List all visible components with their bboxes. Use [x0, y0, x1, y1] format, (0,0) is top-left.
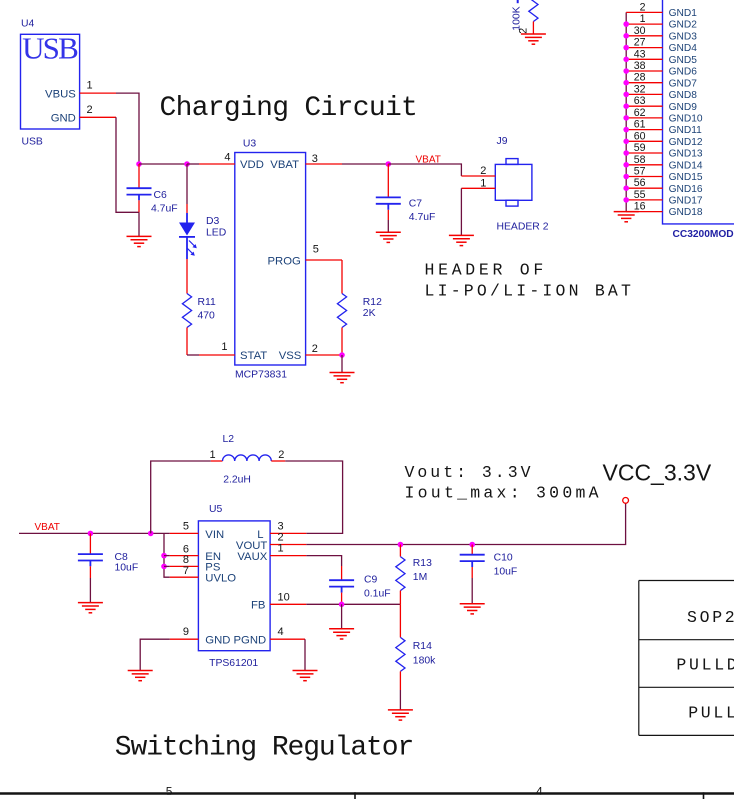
- svg-text:10uF: 10uF: [494, 567, 518, 578]
- ground below U5 GND: [128, 671, 153, 681]
- CC3200MOD pin GND11 stub: [626, 129, 662, 131]
- svg-text:32: 32: [634, 83, 646, 95]
- node EN junction dot: [161, 553, 167, 559]
- svg-text:2: 2: [640, 1, 646, 13]
- CC3200MOD module body edge: [663, 0, 734, 224]
- CC3200MOD pin GND7 stub: [626, 82, 662, 84]
- capacitor C7: [376, 197, 401, 203]
- ground below C10: [460, 604, 485, 614]
- svg-text:56: 56: [634, 177, 646, 189]
- GND bus junction dot row 6: [623, 68, 629, 74]
- svg-text:FB: FB: [251, 600, 265, 612]
- svg-text:9: 9: [183, 626, 189, 638]
- GND bus junction dot row 7: [623, 80, 629, 86]
- svg-text:27: 27: [634, 37, 646, 49]
- capacitor C7 top wire: [387, 164, 389, 197]
- J9 pin 2 stub: [461, 175, 495, 177]
- svg-text:60: 60: [634, 130, 646, 142]
- capacitor C10 top wire: [471, 545, 473, 555]
- GND bus junction dot row 14: [623, 162, 629, 168]
- U5 pin 5 stub: [170, 532, 199, 534]
- svg-text:GND5: GND5: [669, 55, 698, 66]
- wire PGND to ground: [304, 639, 306, 670]
- capacitor C6 top wire: [138, 164, 140, 188]
- CC3200MOD pin GND12 stub: [626, 140, 662, 142]
- svg-text:VIN: VIN: [205, 529, 224, 541]
- node C8 junction dot: [88, 531, 94, 537]
- svg-text:1: 1: [221, 341, 227, 353]
- wire C8 bottom red: [89, 566, 91, 578]
- svg-text:GND18: GND18: [669, 207, 703, 218]
- wire R13/R14 node down: [399, 604, 401, 637]
- table grid lines: [639, 581, 734, 736]
- GND bus junction dot row 13: [623, 150, 629, 156]
- svg-text:4: 4: [224, 152, 230, 164]
- svg-text:HEADER OF: HEADER OF: [425, 260, 547, 279]
- svg-text:VBAT: VBAT: [270, 159, 299, 171]
- wire C10 to ground: [471, 578, 473, 604]
- svg-text:VBUS: VBUS: [45, 88, 76, 100]
- svg-text:5: 5: [183, 520, 189, 532]
- CC3200MOD pin GND6 stub: [626, 70, 662, 72]
- svg-text:PROG: PROG: [268, 255, 301, 267]
- wire PS dot to stub: [164, 565, 170, 567]
- border line: [0, 792, 734, 794]
- svg-text:USB: USB: [22, 136, 43, 147]
- wire R14 to ground: [399, 690, 401, 710]
- U5 pin 6 stub: [170, 555, 199, 557]
- resistor R11: [182, 294, 191, 328]
- svg-text:Iout_max: 300mA: Iout_max: 300mA: [405, 484, 602, 503]
- GND bus junction dot row 10: [623, 115, 629, 121]
- svg-text:GND13: GND13: [669, 149, 703, 160]
- ground below C7: [376, 232, 401, 242]
- wire J9 pin1 to ground: [460, 188, 462, 235]
- svg-text:57: 57: [634, 166, 646, 178]
- partial clipped label mark: [517, 0, 519, 3]
- wire node B to U3 VDD pin: [187, 163, 199, 165]
- svg-text:2: 2: [518, 28, 530, 34]
- wire C6 bottom to ground: [138, 212, 140, 236]
- capacitor C8 bottom pin: [89, 561, 91, 567]
- svg-text:100K: 100K: [512, 6, 523, 30]
- GND bus junction dot row 4: [623, 45, 629, 51]
- svg-text:2: 2: [312, 343, 318, 355]
- CC3200MOD pin GND3 stub: [626, 35, 662, 37]
- GND bus junction dot row 8: [623, 92, 629, 98]
- svg-text:7: 7: [183, 565, 189, 577]
- ground below J9: [449, 235, 474, 245]
- svg-text:PULLUP: PULLUP: [688, 704, 734, 723]
- CC3200MOD pin GND13 stub: [626, 152, 662, 154]
- svg-text:0.1uF: 0.1uF: [364, 589, 391, 600]
- capacitor C10 bottom pin: [471, 561, 473, 567]
- GND bus wire: [625, 12, 627, 211]
- node C junction dot: [386, 161, 392, 167]
- svg-text:PGND: PGND: [234, 635, 267, 647]
- svg-text:Vout: 3.3V: Vout: 3.3V: [405, 463, 534, 482]
- ground below C6: [127, 236, 152, 246]
- U3 pin 3 stub: [306, 163, 342, 165]
- svg-text:VSS: VSS: [279, 350, 302, 362]
- node C10 junction dot: [469, 542, 475, 548]
- svg-text:D3: D3: [206, 216, 220, 227]
- wire C7 bottom red: [387, 210, 389, 220]
- U3 MCP73831 body: [235, 153, 306, 366]
- svg-text:LI-PO/LI-ION BAT: LI-PO/LI-ION BAT: [425, 281, 635, 300]
- svg-text:30: 30: [634, 25, 646, 37]
- svg-text:1: 1: [87, 80, 93, 92]
- U3 pin 1 stub: [199, 354, 235, 356]
- CC3200MOD pin GND10 stub: [626, 117, 662, 119]
- capacitor C6: [127, 188, 152, 194]
- svg-text:HEADER 2: HEADER 2: [497, 221, 549, 232]
- J9 pin 1 stub: [461, 187, 495, 189]
- svg-text:62: 62: [634, 107, 646, 119]
- svg-text:Charging Circuit: Charging Circuit: [160, 93, 418, 124]
- wire GND pin2 down and right to C6 bottom node: [116, 117, 139, 212]
- ground below C9: [329, 629, 354, 639]
- node R13 junction dot: [398, 542, 404, 548]
- resistor R13: [396, 557, 405, 591]
- U4 pin 1 stub: [80, 92, 116, 94]
- U5 pin 4 stub: [270, 638, 305, 640]
- U3 pin 5 stub: [306, 259, 342, 261]
- svg-text:2: 2: [87, 104, 93, 116]
- capacitor C7 bottom pin: [387, 204, 389, 210]
- svg-text:GND9: GND9: [669, 102, 698, 113]
- svg-text:GND12: GND12: [669, 137, 703, 148]
- svg-text:U4: U4: [21, 19, 35, 30]
- svg-text:R13: R13: [413, 558, 432, 569]
- svg-text:GND3: GND3: [669, 31, 698, 42]
- svg-text:5: 5: [313, 244, 319, 256]
- header J9 body: [495, 159, 532, 207]
- CC3200MOD pin GND16 stub: [626, 187, 662, 189]
- CC3200MOD pin GND2 stub: [626, 23, 662, 25]
- resistor R12: [337, 294, 346, 328]
- resistor R13 top wire: [399, 545, 401, 557]
- wire node C to J9 corner: [388, 164, 461, 176]
- wire VOUT rail: [306, 503, 625, 544]
- wire FB to R13/R14 node: [306, 603, 400, 605]
- svg-text:2: 2: [278, 449, 284, 461]
- LED D3: [179, 213, 197, 259]
- U5 TPS61201 body: [198, 521, 270, 651]
- wire VBAT pin3 to node C: [342, 163, 388, 165]
- svg-text:C9: C9: [364, 575, 378, 586]
- U5 pin 1 stub: [270, 555, 306, 557]
- border mask: [0, 795, 734, 799]
- svg-text:GND14: GND14: [669, 160, 703, 171]
- U3 pin 2 stub: [306, 354, 342, 356]
- capacitor C8: [78, 554, 103, 560]
- svg-text:59: 59: [634, 142, 646, 154]
- wire VSS node to ground: [341, 355, 343, 373]
- wire red above LED: [186, 204, 188, 213]
- USB connector U4 body: [21, 34, 80, 129]
- U5 pin 9 stub: [170, 638, 199, 640]
- wire corner to STAT pin: [187, 354, 199, 356]
- U3 pin 4 stub: [199, 163, 235, 165]
- CC3200MOD pin GND9 stub: [626, 105, 662, 107]
- GND bus junction dot row 3: [623, 33, 629, 39]
- svg-text:GND11: GND11: [669, 125, 703, 136]
- CC3200MOD pin GND15 stub: [626, 176, 662, 178]
- U4 pin 2 stub: [80, 116, 116, 118]
- svg-text:VBAT: VBAT: [35, 522, 60, 533]
- svg-text:63: 63: [634, 95, 646, 107]
- svg-text:PULLDOWN: PULLDOWN: [676, 656, 734, 675]
- svg-text:470: 470: [198, 310, 216, 321]
- ground below C8: [78, 603, 103, 613]
- resistor R14 bottom red wire: [399, 671, 401, 690]
- wire C8 to ground: [89, 578, 91, 603]
- node PS junction dot: [161, 564, 167, 570]
- wire C7 bottom to ground: [387, 220, 389, 232]
- svg-text:2K: 2K: [363, 308, 376, 319]
- wire R11 to STAT corner: [186, 328, 188, 356]
- capacitor C10: [460, 555, 485, 561]
- svg-text:Switching Regulator: Switching Regulator: [115, 733, 413, 764]
- svg-text:1: 1: [278, 543, 284, 555]
- resistor R13 bottom wire: [399, 591, 401, 605]
- svg-text:GND15: GND15: [669, 172, 703, 183]
- U5 pin 3 stub: [270, 532, 306, 534]
- wire L2 left leg: [151, 461, 211, 533]
- svg-text:58: 58: [634, 154, 646, 166]
- U5 pin 2 stub: [270, 544, 306, 546]
- ground below 100K resistor: [521, 34, 546, 44]
- CC3200MOD pin GND5 stub: [626, 58, 662, 60]
- wire 100K resistor to ground: [532, 22, 534, 35]
- U5 pin 10 stub: [270, 603, 306, 605]
- svg-text:C10: C10: [494, 552, 513, 563]
- svg-text:U5: U5: [209, 504, 223, 515]
- GND bus junction dot row 9: [623, 103, 629, 109]
- GND bus junction dot row 12: [623, 139, 629, 145]
- wire C9 node to ground: [341, 604, 343, 629]
- svg-text:10: 10: [278, 591, 290, 603]
- svg-text:USB: USB: [22, 31, 78, 66]
- VCC_3.3V terminal circle: [623, 498, 629, 504]
- svg-text:1: 1: [210, 449, 216, 461]
- wire L2 right leg to U5 L pin: [285, 461, 342, 533]
- CC3200MOD pin GND18 stub: [626, 211, 662, 213]
- wire EN/PS/UVLO vertical: [164, 533, 170, 577]
- svg-text:L2: L2: [223, 434, 235, 445]
- wire node B down to LED: [186, 164, 188, 204]
- wire PROG to R12: [341, 260, 343, 294]
- svg-text:61: 61: [634, 119, 646, 131]
- wire C9 bottom red: [341, 593, 343, 605]
- svg-text:1: 1: [480, 178, 486, 190]
- svg-text:C6: C6: [154, 190, 168, 201]
- svg-text:C8: C8: [115, 552, 129, 563]
- svg-text:GND1: GND1: [669, 8, 698, 19]
- capacitor C9: [329, 580, 354, 586]
- svg-text:C7: C7: [409, 198, 423, 209]
- svg-text:28: 28: [634, 72, 646, 84]
- svg-text:R12: R12: [363, 297, 382, 308]
- capacitor C9 top wire red: [341, 566, 343, 580]
- GND bus junction dot row 16: [623, 185, 629, 191]
- svg-text:4.7uF: 4.7uF: [151, 204, 178, 215]
- svg-text:R11: R11: [198, 297, 217, 308]
- GND bus junction dot row 5: [623, 57, 629, 63]
- wire VBAT rail into VIN: [19, 532, 170, 534]
- wire VAUX to C9: [306, 556, 341, 566]
- svg-text:10uF: 10uF: [115, 563, 139, 574]
- svg-text:GND: GND: [205, 635, 230, 647]
- svg-text:GND2: GND2: [669, 20, 698, 31]
- svg-text:16: 16: [634, 201, 646, 213]
- ground below R14: [388, 710, 413, 720]
- GND bus junction dot row 11: [623, 127, 629, 133]
- resistor R? 100K (partial at top): [529, 0, 538, 22]
- svg-text:UVLO: UVLO: [205, 573, 236, 585]
- svg-text:VDD: VDD: [240, 159, 264, 171]
- svg-text:U3: U3: [243, 138, 257, 149]
- svg-text:180k: 180k: [413, 656, 436, 667]
- svg-text:SOP2: SOP2: [687, 608, 734, 627]
- GND bus junction dot row 15: [623, 174, 629, 180]
- GND bus junction dot row 17: [623, 197, 629, 203]
- svg-text:LED: LED: [206, 227, 226, 238]
- CC3200MOD pin GND17 stub: [626, 199, 662, 201]
- ground below GND bus: [614, 212, 639, 222]
- U5 pin 8 stub: [170, 565, 199, 567]
- wire C6 bottom red: [138, 200, 140, 212]
- CC3200MOD pin GND4 stub: [626, 47, 662, 49]
- CC3200MOD pin GND8 stub: [626, 93, 662, 95]
- svg-text:4.7uF: 4.7uF: [409, 212, 436, 223]
- CC3200MOD pin GND14 stub: [626, 164, 662, 166]
- svg-text:VCC_3.3V: VCC_3.3V: [603, 460, 712, 486]
- wire VBUS pin1 to node A: [116, 93, 139, 164]
- node A junction dot: [136, 161, 142, 167]
- svg-text:GND17: GND17: [669, 196, 703, 207]
- svg-text:GND: GND: [51, 112, 76, 124]
- GND bus junction dot row 2: [623, 21, 629, 27]
- svg-text:55: 55: [634, 189, 646, 201]
- wire C10 bottom red: [471, 567, 473, 578]
- CC3200MOD pin GND1 stub: [626, 11, 662, 13]
- svg-text:38: 38: [634, 60, 646, 72]
- svg-text:4: 4: [278, 626, 284, 638]
- inductor L2 coils: [223, 455, 272, 461]
- svg-text:1: 1: [640, 13, 646, 25]
- ground below U3 VSS: [330, 373, 355, 383]
- resistor R14: [396, 637, 405, 671]
- ground below U5 PGND: [293, 671, 318, 681]
- svg-text:GND7: GND7: [669, 78, 698, 89]
- svg-text:GND4: GND4: [669, 43, 698, 54]
- svg-text:GND16: GND16: [669, 184, 703, 195]
- L2 pin 2 stub: [271, 460, 285, 462]
- capacitor C6 bottom pin: [138, 195, 140, 201]
- svg-text:CC3200MOD: CC3200MOD: [673, 229, 734, 240]
- U5 pin 7 stub: [170, 576, 199, 578]
- L2 pin 1 stub: [211, 460, 223, 462]
- node C9-FB junction dot: [339, 602, 345, 608]
- svg-text:GND6: GND6: [669, 67, 698, 78]
- wire LED to R11: [186, 259, 188, 294]
- svg-text:J9: J9: [497, 136, 508, 147]
- svg-text:1M: 1M: [413, 572, 427, 583]
- wire GND pin to ground: [140, 639, 170, 670]
- node B junction dot: [184, 161, 190, 167]
- node VSS junction dot: [339, 352, 345, 358]
- svg-text:2.2uH: 2.2uH: [223, 474, 251, 485]
- svg-text:STAT: STAT: [240, 350, 267, 362]
- svg-text:MCP73831: MCP73831: [235, 369, 287, 380]
- svg-text:2: 2: [480, 165, 486, 177]
- svg-text:43: 43: [634, 48, 646, 60]
- border tick left: [354, 792, 356, 799]
- wire node A to node B: [139, 163, 187, 165]
- wire EN dot to stub: [164, 555, 170, 557]
- capacitor C8 top wire: [89, 533, 91, 554]
- svg-text:VAUX: VAUX: [237, 551, 267, 563]
- svg-text:GND8: GND8: [669, 90, 698, 101]
- svg-text:TPS61201: TPS61201: [209, 658, 258, 669]
- node L2-left junction dot: [148, 531, 154, 537]
- border tick right: [703, 792, 705, 799]
- svg-text:R14: R14: [413, 641, 432, 652]
- svg-text:GND10: GND10: [669, 114, 703, 125]
- svg-text:3: 3: [312, 153, 318, 165]
- wire R12 to VSS node: [341, 328, 343, 356]
- capacitor C9 bottom pin: [341, 587, 343, 593]
